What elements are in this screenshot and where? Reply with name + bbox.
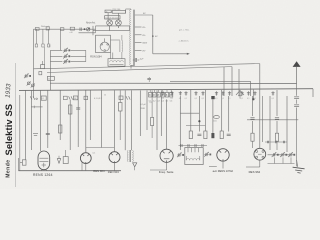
svg-text:REN 904: REN 904 xyxy=(108,170,119,174)
svg-text:0,1: 0,1 xyxy=(42,98,45,100)
node netz junction xyxy=(88,28,90,30)
component mark M6 under bus xyxy=(202,91,204,95)
svg-text:0,1: 0,1 xyxy=(272,98,274,100)
wire drop x157.0 xyxy=(156,90,158,150)
resistor R13 box xyxy=(63,157,68,164)
potentiometer dot P1 xyxy=(252,98,254,100)
svg-text:0,3: 0,3 xyxy=(157,101,160,103)
wire drop x90.3 xyxy=(89,90,91,140)
wire drop x205.4 xyxy=(204,90,206,131)
wire drop x140.3 xyxy=(139,90,141,136)
wire antenna column lower xyxy=(296,100,298,104)
wire tuner drop 1 xyxy=(49,50,51,90)
svg-text:RES 964: RES 964 xyxy=(249,170,261,174)
wire drop x19.8 xyxy=(19,95,21,171)
coupling unit box xyxy=(185,148,203,165)
svg-text:Freq. Seite: Freq. Seite xyxy=(159,170,174,174)
wire link y119.8 xyxy=(247,119,298,121)
tube V7 pins xyxy=(259,160,261,167)
switch contacts S3 xyxy=(69,96,71,99)
tube V2 cathode xyxy=(43,163,45,167)
svg-text:300V: 300V xyxy=(142,43,147,45)
potentiometer wiper symbol xyxy=(236,90,244,95)
trimmer capacitor C1 xyxy=(63,49,65,51)
speaker field coil xyxy=(119,41,121,53)
wire lamps to bus xyxy=(109,26,111,31)
svg-text:25: 25 xyxy=(48,78,50,80)
volume pot box xyxy=(22,160,26,165)
svg-text:0,1: 0,1 xyxy=(185,98,187,100)
capacitor C11 block dark xyxy=(211,96,214,99)
component mark M7 under bus xyxy=(216,91,218,95)
wire long line L3 xyxy=(50,82,297,84)
svg-text:Wellensch.: Wellensch. xyxy=(41,26,51,28)
wire ground column xyxy=(296,120,298,167)
audio transformer T2 secondary xyxy=(132,150,133,161)
component mark M4 under bus xyxy=(185,91,187,95)
switch contacts S2 xyxy=(30,96,32,100)
component mark M2 under bus xyxy=(171,91,173,95)
wire tuner row 3 xyxy=(50,61,62,63)
svg-text:RGN 1064: RGN 1064 xyxy=(90,55,102,58)
wire bottom left riser xyxy=(18,158,20,171)
capacitor C8 xyxy=(76,107,80,109)
wire long line L2 xyxy=(47,67,232,73)
wire drop x47.8 xyxy=(47,90,49,148)
coil L1 antenna xyxy=(41,65,45,69)
svg-text:0,1: 0,1 xyxy=(162,98,164,100)
resistor R4 xyxy=(73,96,77,100)
component mark M12 under bus xyxy=(254,91,256,95)
wire drop x224 xyxy=(223,67,225,96)
capacitor C6 block xyxy=(84,96,88,99)
svg-text:0,4: 0,4 xyxy=(161,101,164,103)
tube V2 RENS1264 envelope xyxy=(38,151,50,170)
trimmer capacitor C3 xyxy=(63,61,65,63)
band switch box c xyxy=(60,28,64,31)
svg-text:1933: 1933 xyxy=(5,83,13,98)
tube V5 pins xyxy=(166,162,168,170)
wire drop x232 xyxy=(231,67,233,96)
band switch box a xyxy=(35,28,39,31)
resistor R9 xyxy=(204,131,207,139)
switch contacts S4 xyxy=(126,96,128,99)
capacitor C12 xyxy=(197,133,201,135)
capacitor C-af xyxy=(147,77,151,79)
voltage selector plate xyxy=(105,16,120,19)
svg-text:5000: 5000 xyxy=(213,121,217,123)
wire drop x25.5 xyxy=(25,90,27,160)
coupling unit coils xyxy=(186,158,200,160)
component mark M10 under bus xyxy=(241,91,243,95)
tube V2 pins xyxy=(41,170,43,171)
wire fuse to lamps xyxy=(107,13,109,20)
wire drop x147.0 xyxy=(146,90,148,130)
svg-text:0,1: 0,1 xyxy=(247,98,249,100)
capacitor C18 xyxy=(294,104,299,106)
svg-text:4µF: 4µF xyxy=(140,59,144,61)
capacitor C15 xyxy=(250,117,254,119)
detector diode D1 xyxy=(57,159,60,164)
wire drop x40.6 xyxy=(40,90,42,151)
component mark M1 under bus xyxy=(162,91,164,95)
wire drop x221.7 xyxy=(221,90,223,131)
node heater star point xyxy=(152,35,154,37)
svg-text:110 125 150 220: 110 125 150 220 xyxy=(105,17,118,19)
capacitor row C19 xyxy=(179,145,208,147)
wire tuner row 2 xyxy=(50,55,62,57)
wire V3-V4 top link xyxy=(85,148,87,153)
tube V4 REN904 xyxy=(109,152,120,163)
component mark M13 under bus xyxy=(272,91,274,95)
wire drop x239 xyxy=(238,69,240,96)
capacitor C13 dark xyxy=(211,133,214,138)
coil L2 small xyxy=(39,72,42,75)
band switch row wire xyxy=(34,28,96,30)
resistor R10 xyxy=(220,131,223,139)
trimmer capacitor C25 xyxy=(288,154,290,156)
svg-text:0,1: 0,1 xyxy=(241,98,243,100)
rectifier tube V1 RGN1064 xyxy=(100,42,109,51)
resistor R6 vertical xyxy=(119,103,123,112)
component mark M8 under bus xyxy=(222,91,224,95)
wire drop x31.6 xyxy=(31,90,33,150)
capacitor C17 xyxy=(294,96,299,98)
node junction dark xyxy=(198,120,200,122)
trimmer capacitor C24 xyxy=(280,154,282,156)
wire drop x60.2 xyxy=(59,90,61,140)
wire drop x262 xyxy=(262,96,264,142)
wire drop x270b xyxy=(269,96,271,150)
svg-text:Netz-Ant.: Netz-Ant. xyxy=(86,21,96,24)
audio transformer T2 primary xyxy=(127,150,128,161)
tube V6 RENS1374d envelope xyxy=(217,149,229,161)
wire drop x250 xyxy=(250,81,252,96)
transformer tap heater 1 xyxy=(135,26,142,28)
wire drop x180.3b xyxy=(179,96,181,150)
capacitor C-filter 4uF xyxy=(133,59,135,61)
svg-text:0,1: 0,1 xyxy=(202,98,204,100)
component mark M11 under bus xyxy=(248,91,250,95)
band switch box d xyxy=(70,27,74,30)
svg-text:0,5: 0,5 xyxy=(150,102,153,104)
tube V7 pin circles xyxy=(256,150,258,152)
wire mains top xyxy=(126,8,131,10)
svg-text:0,2: 0,2 xyxy=(153,101,156,103)
switch drop a xyxy=(35,29,37,44)
speaker triangle xyxy=(133,163,137,167)
wire drop x190.8 xyxy=(190,90,192,131)
wire link y125 xyxy=(186,125,205,127)
wire drop x125.2 xyxy=(124,90,126,150)
capacitor C7 block xyxy=(119,96,123,100)
wire netz lower xyxy=(93,30,130,32)
capacitor C22 row xyxy=(266,141,268,143)
component mark M9 under bus xyxy=(229,91,231,95)
wire L1 left drop xyxy=(33,29,35,98)
rectifier box outline xyxy=(96,35,111,52)
resistor R2 box xyxy=(47,76,54,80)
trimmer capacitor C20 xyxy=(177,154,179,156)
tube V2 anode xyxy=(39,161,48,163)
wire netz second xyxy=(79,32,96,34)
svg-text:a+b RENS 1374d: a+b RENS 1374d xyxy=(213,169,234,173)
wire drop x101.5 xyxy=(101,90,103,147)
band switch S1 xyxy=(27,82,30,85)
resistor R5 vertical xyxy=(69,105,72,114)
dial lamp La1 xyxy=(107,20,113,26)
antenna symbol xyxy=(293,61,301,67)
wire secondary rail xyxy=(152,15,154,54)
audio transformer T2 core xyxy=(129,150,131,162)
wire antenna feed down xyxy=(60,29,62,50)
transformer T1 core xyxy=(132,10,134,66)
wave switch contact block xyxy=(149,92,152,97)
dial lamp La2 xyxy=(116,20,122,26)
choke L3 ellipse xyxy=(214,115,220,118)
filter choke box xyxy=(108,59,125,66)
trimmer capacitor C21 xyxy=(204,154,206,156)
wire trimmer row xyxy=(268,154,295,156)
wire drop x199.4 xyxy=(198,96,200,132)
wire drop x259 to output tube xyxy=(259,64,261,149)
svg-text:RENS 1264: RENS 1264 xyxy=(33,173,53,177)
left margin rule line xyxy=(15,63,17,187)
wire trimmer drops xyxy=(274,157,276,163)
transformer tap HT xyxy=(135,42,142,44)
grid resistor R7 xyxy=(59,125,62,133)
svg-text:0,6: 0,6 xyxy=(170,101,173,103)
coupling unit contacts xyxy=(187,148,189,153)
wire drop x114.4 to V3 xyxy=(113,90,115,151)
capacitor C16 xyxy=(275,117,279,119)
svg-text:a.W.: a.W. xyxy=(70,32,74,34)
wire choke lower xyxy=(110,63,124,65)
trimmer capacitor C2 xyxy=(63,55,65,57)
filter choke coil Dr xyxy=(110,61,124,62)
wire drop x277 xyxy=(276,90,278,116)
tube V3 REN904 xyxy=(80,153,91,164)
wire drop x70.2 xyxy=(69,100,71,150)
svg-text:0,1µF: 0,1µF xyxy=(141,104,147,106)
resistor R3 xyxy=(41,96,46,100)
svg-text:2MΩ: 2MΩ xyxy=(141,108,146,110)
trimmer capacitor C4 xyxy=(24,75,26,77)
band switch box b xyxy=(46,27,49,30)
svg-text:0,1: 0,1 xyxy=(215,98,217,100)
wire tuner row 1 xyxy=(50,49,62,51)
wire drop x166.6 to V4 xyxy=(166,99,168,149)
transformer tap heater 2 xyxy=(135,34,142,36)
svg-text:0,1: 0,1 xyxy=(171,98,173,100)
fuse box Si xyxy=(105,10,111,13)
wire antenna column xyxy=(296,83,298,95)
switch drop c xyxy=(48,29,50,44)
wire drop x287b xyxy=(286,96,288,152)
svg-text:50: 50 xyxy=(104,95,106,97)
wire transformer bottom xyxy=(131,64,135,66)
resistor R-mains (barretter) xyxy=(112,11,125,14)
tube V6 pins xyxy=(222,161,224,168)
component mark M3 under bus xyxy=(179,91,181,95)
bus line main xyxy=(19,89,313,91)
tube V2 grid xyxy=(39,157,48,159)
transformer T1 primary winding xyxy=(130,10,131,66)
tube V4 pins xyxy=(114,163,116,171)
wire drop x131.5 xyxy=(131,90,133,150)
bottom bus line xyxy=(19,170,122,172)
wire drop x78.2 xyxy=(77,90,79,147)
svg-text:z. Abstimm.: z. Abstimm. xyxy=(179,39,190,42)
resistor R11 xyxy=(251,133,254,141)
wire tuner drop 2 xyxy=(85,50,87,61)
transformer tap heater 3 xyxy=(135,50,142,52)
ground symbol xyxy=(297,160,298,167)
tube V5 electrodes xyxy=(163,151,165,153)
wire inner line L3b xyxy=(170,80,251,82)
wire drop x228.7 xyxy=(228,96,230,132)
svg-text:Mende: Mende xyxy=(5,159,11,177)
wire drop x252.5b xyxy=(252,96,254,116)
svg-text:Selektiv SS: Selektiv SS xyxy=(3,104,14,156)
capacitor C-ant2 xyxy=(79,28,81,31)
antenna select circle xyxy=(87,28,90,31)
wire rectifier to choke xyxy=(110,53,112,59)
switch drop b xyxy=(42,29,44,44)
wire drop x85.8 to V2 xyxy=(85,90,87,152)
wire link y107.7 xyxy=(31,106,43,108)
capacitor C14 xyxy=(227,133,231,135)
svg-text:REN 904: REN 904 xyxy=(93,169,105,173)
capacitor C10 xyxy=(46,132,50,134)
wire drop x212.9 xyxy=(212,99,214,133)
transformer tap 4V top xyxy=(135,14,153,16)
capacitor C9 marks xyxy=(33,133,38,135)
trimmer capacitor C23 xyxy=(272,154,274,156)
wire netz horizontal xyxy=(96,25,130,27)
svg-text:geh. z. Heiz.: geh. z. Heiz. xyxy=(179,30,190,32)
wire drop x161.3 xyxy=(160,90,162,136)
capacitor C5 block xyxy=(63,96,67,99)
tube V6 electrodes xyxy=(219,151,221,153)
wire tuner drop 3 xyxy=(43,47,45,65)
tube V7 RES964 envelope xyxy=(254,148,266,160)
resistor R14 vertical xyxy=(151,118,154,126)
wire long line L1 xyxy=(34,64,260,69)
svg-text:0,1: 0,1 xyxy=(195,98,197,100)
resistor R12 xyxy=(275,133,278,141)
component mark M5 under bus xyxy=(195,91,197,95)
resistor R8 xyxy=(189,131,192,139)
wire link y113 xyxy=(180,112,199,114)
tube V5 RENS1204 envelope xyxy=(160,149,173,162)
tube V3 pins to bus xyxy=(85,164,87,171)
wire heater arrow xyxy=(153,53,188,55)
